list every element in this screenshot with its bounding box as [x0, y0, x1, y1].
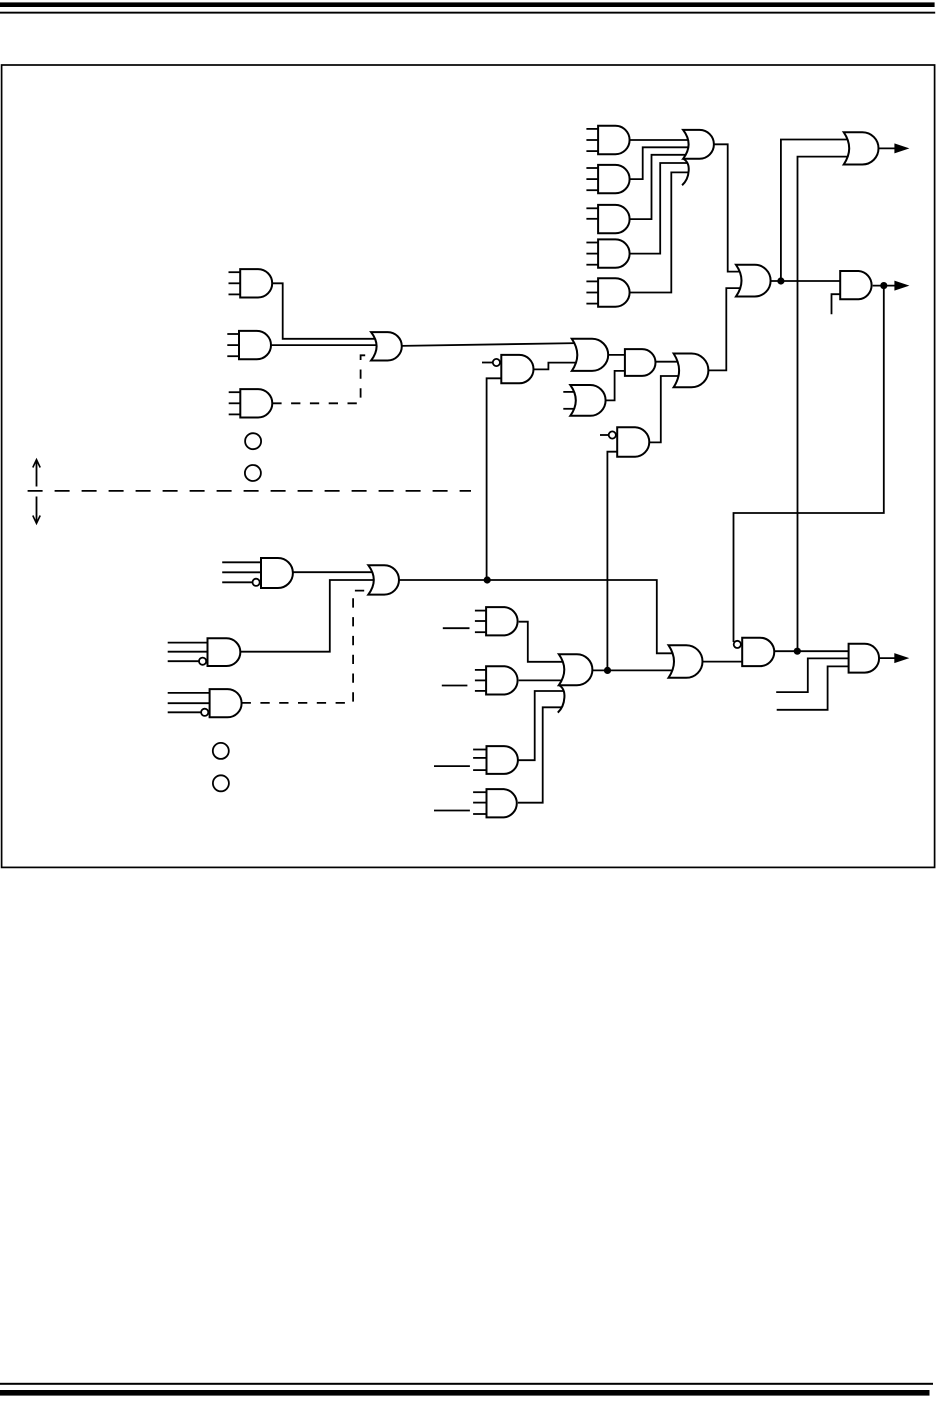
AND gate AND7	[849, 644, 879, 673]
wire feedback from node N2 to NAND4 bubble	[734, 286, 884, 642]
wire OR6 out to AND5b in1	[608, 354, 626, 356]
wire OR4 out to OR5 in2	[708, 288, 742, 370]
wire A2 out to OR1 in2	[630, 147, 691, 179]
wire AND-B out to OR3 in2	[271, 344, 379, 346]
wire A3 out to OR1 in3	[630, 155, 688, 219]
OR gate OR10	[669, 645, 703, 678]
wire A1 out to OR1 in1	[630, 139, 691, 141]
NAND gate NAND4	[734, 638, 775, 666]
wire OR2 output lead	[879, 147, 896, 149]
wire NAND3 out to OR8 in1	[293, 571, 374, 573]
AND gate A4	[586, 239, 629, 267]
wire OR7 in2 stub	[563, 408, 576, 410]
wire NAND4 out to AND7 in1	[774, 650, 848, 652]
wire AND5b out to OR4 in1	[656, 361, 680, 363]
OR gate OR3	[371, 332, 402, 360]
page top thick rule	[0, 2, 935, 7]
OR gate OR4	[674, 354, 709, 388]
OR gate OR8	[368, 565, 399, 594]
wire NAND5 out to OR8 in2	[240, 580, 376, 652]
wire OR7 in1 stub	[563, 391, 576, 393]
NAND gate NAND6	[168, 689, 242, 717]
page top thin rule	[0, 12, 935, 14]
wire OR7 out to AND5b in2	[606, 371, 626, 401]
wire AND-P3 out to OR9 in3	[518, 691, 564, 760]
wire NAND1 out to OR6 in2	[534, 363, 579, 370]
wire A5 out to OR1 in5	[630, 172, 689, 292]
AND gate AND-A	[229, 269, 273, 297]
AND gate A1	[586, 126, 629, 154]
wire A4 out to OR1 in4	[630, 163, 688, 254]
wire OR5 out to AND6 in1	[771, 280, 841, 282]
AND gate A3	[586, 205, 629, 233]
output arrow of AND6	[894, 281, 909, 291]
wire AND-P4 open input line	[434, 810, 470, 812]
OR gate OR1 five-input	[682, 130, 714, 185]
page bottom thick rule	[0, 1390, 930, 1396]
wire OR8 out to OR10 in1	[399, 580, 675, 653]
wire node N1 up to OR2 in1	[781, 140, 850, 282]
AND gate AND6	[840, 271, 871, 299]
wire AND-P1 out to OR9 in1	[519, 622, 565, 662]
wire NAND2 in1 stub	[600, 434, 611, 436]
axis arrow down shaft	[36, 497, 38, 523]
NAND gate NAND3	[222, 558, 293, 588]
wire AND-P2 out to OR9 in2	[519, 679, 564, 681]
axis arrow up head	[33, 460, 40, 468]
wire AND-P3 open input line	[434, 765, 470, 767]
wire dashed NAND6 out to OR8 in3	[242, 591, 373, 703]
AND gate A2	[586, 165, 629, 193]
ellipsis circle upper 2	[245, 465, 261, 481]
wire dashed AND-C out to OR3 in3	[272, 355, 376, 403]
wire AND7 output lead	[879, 657, 895, 659]
AND gate A5	[586, 278, 629, 306]
axis arrow up shaft	[36, 461, 38, 487]
wire node N3 up to NAND1 in2	[487, 378, 502, 580]
ellipsis circle lower 1	[213, 743, 229, 759]
NAND gate NAND1	[493, 355, 534, 383]
AND gate AND-P1	[475, 607, 518, 635]
wire dashed horizontal axis	[28, 490, 471, 492]
OR gate OR2 output	[844, 132, 879, 164]
wire OR2 in2 down to node N5	[798, 157, 850, 651]
OR gate OR9 four-input	[558, 654, 593, 712]
wire OR9 out to OR10 in2	[592, 669, 674, 671]
OR gate OR7	[570, 385, 605, 416]
NAND gate NAND2	[609, 427, 650, 457]
ellipsis circle lower 2	[213, 775, 229, 791]
OR gate OR5	[736, 265, 771, 297]
AND gate AND-B	[227, 331, 271, 359]
wire NAND2 out to OR4 in2	[649, 376, 681, 442]
OR gate OR6	[572, 339, 608, 371]
AND gate AND-P2	[475, 666, 518, 694]
wire AND7 in2 stub	[776, 658, 848, 692]
output arrow of OR2	[894, 143, 909, 153]
wire AND-P4 out to OR9 in4	[518, 707, 562, 802]
ellipsis circle upper 1	[245, 433, 261, 449]
page bottom thin rule	[0, 1383, 933, 1385]
NAND gate NAND5	[168, 638, 241, 666]
figure border frame	[2, 65, 935, 867]
junction node N4	[604, 667, 611, 674]
axis arrow down head	[33, 516, 40, 524]
wire AND-P2 open input line	[442, 685, 468, 687]
wire AND6 in2 stub	[832, 294, 841, 314]
wire OR3 out to OR6 in1	[402, 343, 577, 346]
junction node N5	[794, 648, 801, 655]
AND gate AND-C	[229, 389, 273, 417]
AND gate AND-P4	[473, 789, 517, 817]
wire OR1 out to OR5 in1	[714, 144, 742, 271]
wire node N4 up to NAND2 in2	[607, 452, 617, 671]
AND gate AND-P3	[473, 746, 518, 774]
junction node N1	[777, 277, 784, 284]
wire AND-A out to OR3 in1	[272, 283, 377, 339]
wire AND7 in3 stub	[777, 666, 849, 709]
wire AND-P1 open input line	[443, 627, 470, 629]
wire NAND1 in1 stub	[482, 362, 494, 364]
wire AND6 output lead	[873, 285, 896, 287]
junction node N2	[880, 282, 887, 289]
AND gate AND5b	[625, 349, 656, 376]
wire OR10 out to NAND4 in2	[703, 661, 743, 663]
output arrow of AND7	[894, 653, 909, 663]
junction node N3	[484, 576, 491, 583]
